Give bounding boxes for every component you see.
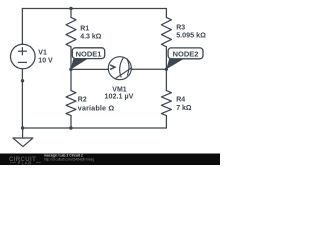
node NODE1 flag tail xyxy=(71,59,88,70)
wire R2 top lead xyxy=(70,69,72,90)
svg-text:4.3 kΩ: 4.3 kΩ xyxy=(80,33,102,40)
svg-text:http://circuitlab.com/c6454jdh: http://circuitlab.com/c6454jdh7vadg xyxy=(44,157,94,161)
wire R3 top lead xyxy=(165,9,167,18)
node NODE2 xyxy=(168,48,203,59)
junction bottom of R2 column xyxy=(69,126,72,129)
svg-text:R1: R1 xyxy=(80,26,89,33)
footer logo LAB xyxy=(10,162,16,164)
wire R4 bottom lead xyxy=(165,116,167,128)
junction below V1 xyxy=(21,79,24,82)
svg-text:NODE1: NODE1 xyxy=(76,49,102,58)
node NODE2 flag tail xyxy=(166,59,184,70)
junction top of R1 column xyxy=(69,7,72,10)
resistor R4 xyxy=(161,91,171,116)
svg-text:LAB: LAB xyxy=(22,161,33,165)
svg-text:V1: V1 xyxy=(38,50,47,57)
svg-text:variable Ω: variable Ω xyxy=(78,103,115,112)
wire R3 bottom lead to node B xyxy=(165,47,167,70)
footer bar xyxy=(0,154,220,166)
svg-text:7 kΩ: 7 kΩ xyxy=(176,105,192,112)
wire left column lower xyxy=(21,69,23,128)
op-amp VM1 meter symbol xyxy=(108,57,132,80)
wire bottom xyxy=(22,127,166,129)
ground xyxy=(13,138,33,147)
junction node A xyxy=(69,68,72,71)
ground stem xyxy=(22,128,24,138)
resistor R2 xyxy=(66,91,76,116)
node NODE1 xyxy=(72,48,104,59)
wire node A to voltmeter xyxy=(71,68,108,70)
wire R1 bottom lead to node A xyxy=(70,47,72,70)
wire R4 top lead xyxy=(165,69,167,90)
wire top xyxy=(22,8,166,10)
junction node B xyxy=(165,68,168,71)
svg-text:5.095 kΩ: 5.095 kΩ xyxy=(176,30,206,39)
svg-text:10 V: 10 V xyxy=(38,57,53,64)
voltage source V1 xyxy=(10,44,35,69)
wire left column upper xyxy=(21,9,23,45)
wire voltmeter to node B xyxy=(131,68,166,70)
svg-text:102.1 µV: 102.1 µV xyxy=(105,91,134,100)
junction bottom left xyxy=(21,126,24,129)
wire R1 top lead xyxy=(70,9,72,18)
svg-text:NODE2: NODE2 xyxy=(173,49,199,58)
wire R2 bottom lead xyxy=(70,116,72,128)
resistor R1 xyxy=(66,17,76,46)
resistor R3 xyxy=(161,17,171,46)
svg-text:R4: R4 xyxy=(176,97,185,104)
